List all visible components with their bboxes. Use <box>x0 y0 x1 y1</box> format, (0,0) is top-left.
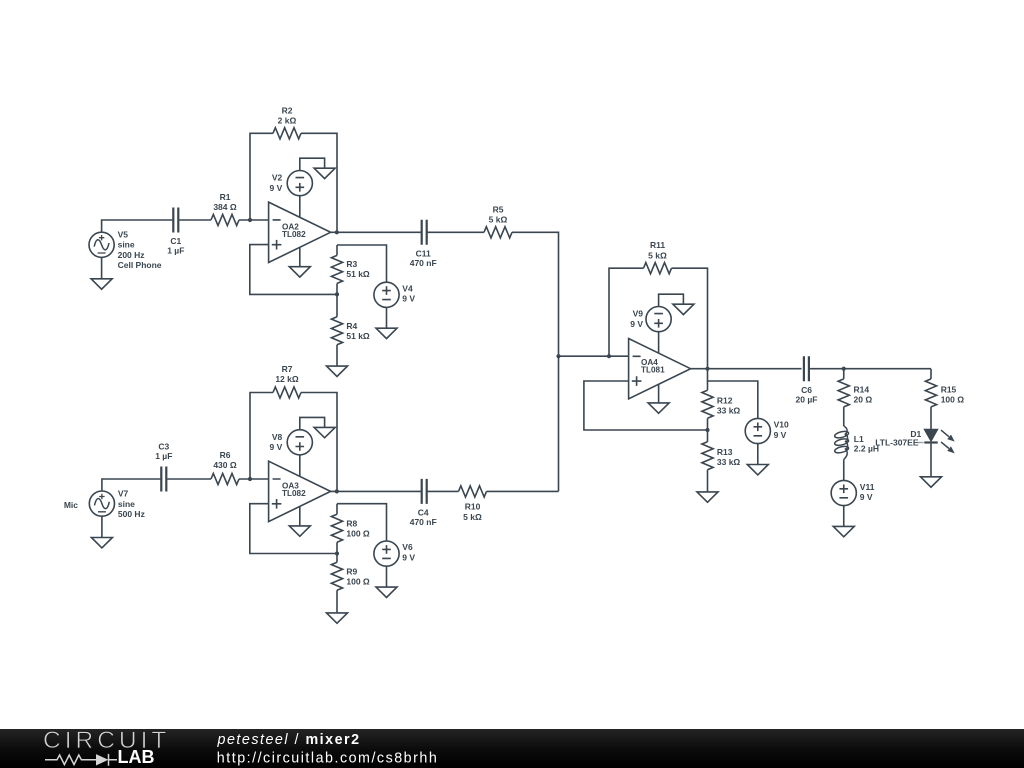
LED D1 <box>917 430 954 453</box>
svg-text:C6: C6 <box>801 385 812 395</box>
capacitor C1 <box>173 208 178 233</box>
svg-text:430 Ω: 430 Ω <box>213 460 237 470</box>
node B dot <box>335 292 339 296</box>
ground V10 <box>747 465 768 475</box>
wire R13 leads <box>707 430 709 492</box>
svg-text:9 V: 9 V <box>270 183 283 193</box>
svg-text:R1: R1 <box>220 192 231 202</box>
node E dot <box>705 428 709 432</box>
svg-text:http://circuitlab.com/cs8brhh: http://circuitlab.com/cs8brhh <box>217 750 438 766</box>
capacitor C11 <box>422 220 427 245</box>
svg-text:Mic: Mic <box>64 500 78 510</box>
svg-text:R14: R14 <box>854 384 870 394</box>
svg-text:sine: sine <box>118 499 135 509</box>
svg-text:100 Ω: 100 Ω <box>346 529 370 539</box>
wire R3 to node B <box>336 283 338 294</box>
svg-text:R5: R5 <box>493 204 504 214</box>
resistor R2 <box>273 128 301 139</box>
svg-text:V8: V8 <box>272 432 283 442</box>
ground R4 <box>327 366 348 376</box>
resistor R1 <box>211 214 239 225</box>
svg-text:5 kΩ: 5 kΩ <box>463 512 482 522</box>
resistor R13 <box>702 442 713 470</box>
node F dot <box>842 367 846 371</box>
wire OA2 ground stem <box>299 247 301 266</box>
source V7 <box>89 491 114 516</box>
ground V9 <box>673 304 694 314</box>
ground V11 <box>833 526 854 536</box>
svg-text:33 kΩ: 33 kΩ <box>717 406 741 416</box>
svg-text:R10: R10 <box>465 502 481 512</box>
svg-text:20 µF: 20 µF <box>796 395 818 405</box>
source V2 <box>287 171 312 196</box>
resistor R8 <box>331 514 342 542</box>
wire plus loop OA3 <box>250 504 337 554</box>
resistor R12 <box>702 390 713 418</box>
source V6 <box>374 541 399 566</box>
resistor R5 <box>484 227 512 238</box>
capacitor C3 <box>161 467 166 492</box>
source V5 <box>89 232 114 257</box>
wire V9 ground arm <box>659 294 684 307</box>
wire R9 leads <box>336 554 338 613</box>
source V9 <box>646 307 671 332</box>
wire plus loop OA4 <box>584 381 708 430</box>
wire R11 feedback loop <box>609 268 708 369</box>
svg-text:51 kΩ: 51 kΩ <box>346 269 370 279</box>
node bus dot <box>556 354 560 358</box>
wire bus to OA4 <box>559 355 629 357</box>
svg-text:9 V: 9 V <box>270 442 283 452</box>
wire R3 top to V4 <box>337 245 387 282</box>
resistor R3 <box>331 255 342 283</box>
node R11 tap dot <box>607 354 611 358</box>
svg-text:R4: R4 <box>346 321 357 331</box>
svg-text:33 kΩ: 33 kΩ <box>717 457 741 467</box>
svg-text:470 nF: 470 nF <box>410 258 437 268</box>
resistor R15 <box>925 379 936 407</box>
ground OA3 <box>289 526 310 536</box>
wire R8 top to V6 <box>337 504 387 542</box>
node OA3 out dot <box>335 489 339 493</box>
svg-text:Cell Phone: Cell Phone <box>118 260 162 270</box>
svg-text:100 Ω: 100 Ω <box>941 395 965 405</box>
ground OA4 <box>648 403 669 413</box>
node OA4 out dot <box>705 367 709 371</box>
svg-text:V2: V2 <box>272 173 283 183</box>
svg-text:5 kΩ: 5 kΩ <box>489 215 508 225</box>
ground V8 <box>314 427 335 437</box>
svg-text:1 µF: 1 µF <box>155 451 172 461</box>
wire OA3 output to bus <box>331 490 559 492</box>
svg-text:TL081: TL081 <box>641 365 665 374</box>
wire V7 top to OA3 <box>102 479 269 491</box>
svg-text:V11: V11 <box>860 482 875 492</box>
op-amp OA2 <box>269 202 331 262</box>
svg-text:V6: V6 <box>402 542 413 552</box>
ground V4 <box>376 328 397 338</box>
capacitor C6 <box>804 356 809 381</box>
node C dot <box>248 477 252 481</box>
ground V5 <box>91 279 112 289</box>
wire R7 feedback loop <box>250 393 337 492</box>
svg-text:12 kΩ: 12 kΩ <box>275 374 299 384</box>
wire V4 to ground <box>386 307 388 328</box>
svg-text:1 µF: 1 µF <box>167 246 184 256</box>
ground OA2 <box>289 267 310 277</box>
svg-text:TL082: TL082 <box>282 489 306 498</box>
wire OA3 ground stem <box>299 506 301 526</box>
svg-text:V10: V10 <box>774 420 789 430</box>
svg-text:500 Hz: 500 Hz <box>118 509 145 519</box>
svg-text:R12: R12 <box>717 395 733 405</box>
resistor R11 <box>644 263 672 274</box>
svg-text:TL082: TL082 <box>282 230 306 239</box>
svg-text:9 V: 9 V <box>774 430 787 440</box>
wire OA2 output to bus <box>331 232 559 491</box>
resistor R6 <box>211 473 239 484</box>
wire OA4 output <box>691 368 931 370</box>
wire V11 to ground <box>843 505 845 526</box>
ground V2 <box>314 168 335 178</box>
source V8 <box>287 430 312 455</box>
svg-text:9 V: 9 V <box>630 319 643 329</box>
wire V5 to ground <box>101 257 103 279</box>
svg-text:R3: R3 <box>346 259 357 269</box>
svg-text:9 V: 9 V <box>860 492 873 502</box>
svg-text:9 V: 9 V <box>402 294 415 304</box>
resistor R12 leads <box>707 381 709 430</box>
source V4 <box>374 282 399 307</box>
ground R9 <box>327 613 348 623</box>
node A dot <box>248 218 252 222</box>
wire V2 ground arm <box>300 158 325 171</box>
svg-text:sine: sine <box>118 240 135 250</box>
op-amp OA3 <box>269 461 331 521</box>
ground V7 <box>91 538 112 548</box>
resistor R8 leads <box>336 504 338 554</box>
svg-text:petesteel / mixer2: petesteel / mixer2 <box>217 732 361 748</box>
svg-text:V5: V5 <box>118 230 129 240</box>
op-amp OA4 <box>629 339 691 399</box>
inductor L1 <box>834 426 849 460</box>
wire R2 feedback loop <box>250 133 337 232</box>
svg-text:C1: C1 <box>170 236 181 246</box>
svg-text:470 nF: 470 nF <box>410 517 437 527</box>
svg-text:LTL-307EE: LTL-307EE <box>875 437 919 447</box>
svg-text:R9: R9 <box>346 566 357 576</box>
wire OA4 ground stem <box>658 384 660 403</box>
wire R15 branch <box>930 369 932 477</box>
svg-text:LAB: LAB <box>118 747 155 767</box>
source V10 <box>745 418 770 443</box>
svg-text:R7: R7 <box>282 364 293 374</box>
wire V6 to ground <box>386 566 388 587</box>
svg-text:R2: R2 <box>282 105 293 115</box>
svg-text:R6: R6 <box>220 450 231 460</box>
svg-text:5 kΩ: 5 kΩ <box>648 250 667 260</box>
wire R12 top tee to V10 <box>708 369 758 419</box>
resistor R7 <box>273 387 301 398</box>
wire V10 to ground <box>757 443 759 464</box>
wire V5 top to C1 <box>102 220 269 232</box>
svg-text:V4: V4 <box>402 283 413 293</box>
wire R4 leads <box>336 294 338 366</box>
svg-text:V9: V9 <box>633 309 644 319</box>
node D dot <box>335 551 339 555</box>
resistor R9 <box>331 562 342 590</box>
wire plus loop OA2 <box>250 245 337 295</box>
svg-text:V7: V7 <box>118 489 129 499</box>
ground R13 <box>697 492 718 502</box>
resistor R10 <box>459 486 487 497</box>
svg-text:51 kΩ: 51 kΩ <box>346 331 370 341</box>
svg-text:2 kΩ: 2 kΩ <box>278 115 297 125</box>
resistor R14 leads <box>843 369 845 426</box>
resistor R4 <box>331 317 342 345</box>
svg-text:9 V: 9 V <box>402 552 415 562</box>
wire V2 to op-amp <box>299 196 301 218</box>
capacitor C4 <box>422 479 427 504</box>
svg-text:200 Hz: 200 Hz <box>118 250 145 260</box>
source V11 <box>831 480 856 505</box>
svg-text:100 Ω: 100 Ω <box>346 577 370 587</box>
wire L1 to V11 <box>843 460 845 481</box>
ground V6 <box>376 587 397 597</box>
wire V8 ground arm <box>300 417 325 430</box>
svg-text:C3: C3 <box>158 442 169 452</box>
wire V9 to op-amp <box>658 332 660 354</box>
svg-text:R13: R13 <box>717 447 733 457</box>
node OA2 out dot <box>335 230 339 234</box>
resistor R14 <box>838 379 849 407</box>
ground D1 <box>921 477 942 487</box>
wire V8 to op-amp <box>299 455 301 477</box>
svg-text:R11: R11 <box>650 240 665 250</box>
svg-text:R8: R8 <box>346 518 357 528</box>
svg-text:R15: R15 <box>941 384 957 394</box>
svg-text:384 Ω: 384 Ω <box>213 202 237 212</box>
svg-text:20 Ω: 20 Ω <box>854 395 873 405</box>
wire V7 to ground <box>101 516 103 538</box>
